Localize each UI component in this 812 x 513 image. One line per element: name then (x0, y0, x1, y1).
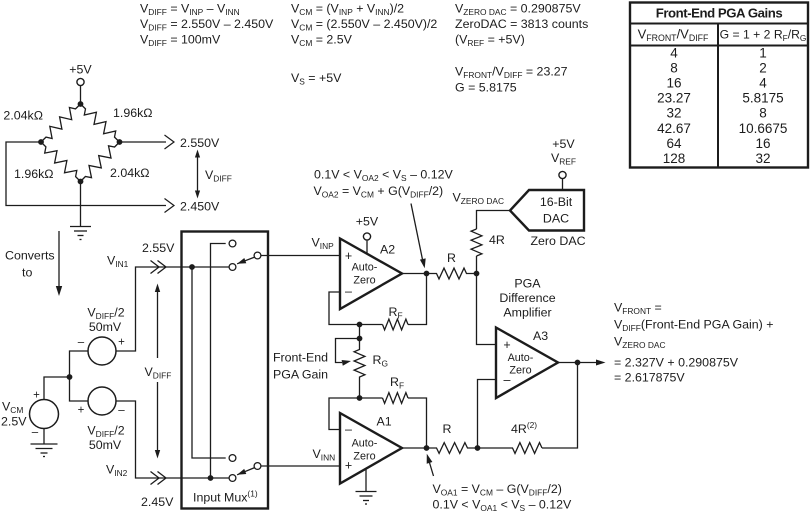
annotation: VOA2 limits with arrow (314, 168, 454, 269)
wire: A3 output (558, 362, 596, 364)
op-amp A2 (340, 239, 402, 310)
wire: VIN1 branch to lower switch throw (192, 267, 226, 458)
label RF (bottom) (390, 375, 404, 391)
label 2.55V (142, 241, 175, 255)
svg-text:–: – (118, 405, 125, 417)
DAC: 16-bit Zero DAC (510, 190, 584, 231)
svg-text:Auto-: Auto- (352, 438, 378, 450)
svg-text:32: 32 (666, 106, 681, 121)
label VIN1 (107, 254, 129, 270)
svg-text:A3: A3 (533, 329, 548, 343)
resistor 4R (471, 229, 482, 256)
svg-text:+: + (345, 249, 352, 263)
label 1.96kOhm (upper-right) (113, 106, 153, 120)
label RF (top) (389, 305, 403, 321)
svg-text:5.8175: 5.8175 (742, 91, 783, 106)
svg-text:8: 8 (670, 61, 678, 76)
svg-text:16: 16 (755, 136, 770, 151)
svg-text:–: – (345, 285, 352, 299)
svg-text:A2: A2 (380, 243, 395, 257)
arrow: VFRONT output (596, 360, 606, 366)
label VIN2 (106, 463, 128, 479)
resistor RG (programmable) (354, 339, 365, 399)
label A3 (533, 329, 548, 343)
svg-text:Front-End PGA Gains: Front-End PGA Gains (656, 6, 783, 21)
svg-text:Zero DAC: Zero DAC (530, 234, 585, 248)
wire: junction to A3 - input (478, 380, 497, 449)
svg-text:42.67: 42.67 (657, 121, 691, 136)
svg-text:128: 128 (663, 151, 686, 166)
label 4R (489, 233, 505, 247)
ground (VCM) (31, 429, 58, 457)
label RG (373, 353, 388, 369)
svg-text:PGA: PGA (514, 277, 541, 291)
switch: input mux lower (to VINN) (229, 455, 261, 482)
svg-text:PGA Gain: PGA Gain (273, 368, 328, 382)
resistor R (top) (427, 268, 477, 279)
wire: A1 output to VOA1 node (402, 447, 427, 449)
node: VOA2 junction (424, 271, 430, 277)
node: VIN1 junction inside mux (189, 264, 195, 270)
label Input Mux(1) (193, 489, 258, 505)
label VINP (312, 236, 335, 252)
svg-text:Auto-: Auto- (352, 262, 378, 274)
annotation arrow: VDIFF between input lines (155, 284, 160, 459)
svg-text:0.1V < VOA2​ < VS​ – 0.12V: 0.1V < VOA2​ < VS​ – 0.12V (314, 168, 454, 184)
resistor 1.96k (bridge lower-left) (41, 142, 81, 182)
svg-text:4: 4 (670, 46, 678, 61)
resistor RF (A2 feedback) (383, 319, 409, 330)
wire: junction to VDIFF/2 sources (70, 351, 89, 401)
annotation: VCM equations (291, 2, 437, 49)
wire: bridge left node to 2.450V output (6, 142, 174, 213)
annotation: gain example (455, 65, 568, 95)
label VINN (313, 447, 336, 463)
resistor 2.04k (bridge lower-right) (81, 142, 120, 182)
switch: input mux upper (to VINP) (229, 240, 261, 270)
label A1 (377, 415, 392, 429)
svg-text:Converts: Converts (5, 249, 55, 263)
label VDIFF/2 50mV (top) (87, 306, 124, 335)
svg-text:+5V: +5V (552, 137, 575, 151)
svg-text:1: 1 (759, 46, 767, 61)
label A2 (380, 243, 395, 257)
chevron: VIN1 entry (151, 261, 167, 274)
svg-text:2.45V: 2.45V (141, 495, 174, 509)
node: source common junction (67, 374, 73, 380)
svg-text:R: R (447, 251, 456, 265)
node: bridge right (117, 139, 123, 145)
svg-text:2.04kΩ: 2.04kΩ (110, 166, 150, 180)
annotation: Front-End PGA Gain (273, 351, 328, 382)
op-amp A3 (496, 328, 558, 399)
source VCM 2.5V (30, 390, 59, 439)
svg-text:50mV: 50mV (89, 438, 122, 452)
label 2.450V (180, 200, 220, 214)
resistor 4R(2) (A3 feedback) (478, 443, 543, 454)
svg-text:+: + (503, 338, 510, 352)
svg-text:0.1V < VOA1​ < VS​ – 0.12V: 0.1V < VOA1​ < VS​ – 0.12V (433, 498, 573, 513)
svg-text:+: + (78, 405, 85, 417)
resistor R (bottom) (427, 443, 478, 454)
svg-text:23.27: 23.27 (657, 91, 691, 106)
svg-text:Amplifier: Amplifier (503, 306, 551, 320)
annotation: VZERODAC equations (455, 2, 588, 49)
annotation: VS supply (291, 71, 342, 87)
svg-text:2.5V: 2.5V (1, 415, 27, 429)
wire: bridge right node to 2.550V output (120, 135, 175, 149)
resistor RF (A1 feedback) (383, 393, 409, 404)
wire: VZERODAC from DAC to 4R (477, 211, 511, 274)
node: VFRONT output junction (575, 360, 581, 366)
label R (top) (447, 251, 456, 265)
label R (bottom) (443, 422, 452, 436)
ground (bridge) (70, 182, 91, 240)
annotation: Converts to (with arrow) (5, 231, 62, 296)
svg-text:8: 8 (759, 106, 767, 121)
label 2.04kOhm (lower-right) (110, 166, 150, 180)
svg-text:64: 64 (666, 136, 682, 151)
svg-text:VCM​ = (2.550V – 2.450V)/2: VCM​ = (2.550V – 2.450V)/2 (291, 17, 437, 33)
annotation: PGA Difference Amplifier (499, 277, 555, 320)
ground (A1) (356, 468, 377, 504)
wire: A2 output to VOA2 node (402, 273, 427, 275)
node: DAC sum junction (474, 271, 480, 277)
svg-text:10.6675: 10.6675 (739, 121, 788, 136)
node: bridge top (78, 101, 84, 107)
label VCM 2.5V (1, 400, 27, 429)
svg-text:1.96kΩ: 1.96kΩ (113, 106, 153, 120)
wire: VCM to source junction (44, 377, 70, 400)
wire: RG top lead (359, 325, 361, 339)
svg-text:–: – (345, 423, 352, 437)
resistor 1.96k (bridge upper-right) (81, 104, 120, 142)
svg-text:ZeroDAC = 3813 counts: ZeroDAC = 3813 counts (455, 17, 588, 31)
node: bridge bottom (78, 179, 84, 185)
label VDIFF (bridge) (205, 168, 232, 184)
node: RG top junction (RF A2 tap) (357, 322, 363, 328)
wire: A2 feedback loop (329, 274, 427, 325)
node: VIN2 junction inside mux (208, 475, 214, 481)
input mux box (182, 232, 269, 509)
annotation: VFRONT result (614, 301, 773, 385)
node: bridge left (38, 139, 44, 145)
wire: A3 feedback from output to 4R(2) (542, 363, 578, 449)
svg-text:2.55V: 2.55V (142, 241, 175, 255)
svg-text:–: – (78, 337, 85, 349)
svg-text:2.550V: 2.550V (180, 136, 220, 150)
wire: bottom source to VIN2 into mux (116, 401, 181, 478)
svg-text:Auto-: Auto- (508, 352, 534, 364)
svg-text:32: 32 (755, 151, 770, 166)
node: RG adjust tap (357, 336, 363, 342)
table: Front-End PGA Gains (630, 3, 808, 168)
wire: sum node to A3 + input (477, 274, 497, 345)
chevron: VIN2 entry (151, 472, 167, 485)
wire: mux output to VINN (A1 +) (261, 465, 340, 467)
source VDIFF/2 bottom (-right) (78, 387, 126, 417)
resistor 2.04k (bridge upper-left) (41, 104, 81, 142)
svg-text:Difference: Difference (499, 291, 555, 305)
svg-text:–: – (32, 427, 39, 439)
node: RG bottom junction (RF A1 tap) (357, 395, 363, 401)
svg-text:2: 2 (759, 61, 767, 76)
svg-text:50mV: 50mV (89, 320, 122, 334)
label 1.96kOhm (lower-left) (14, 167, 54, 181)
annotation: VDIFF equations (140, 2, 274, 49)
svg-text:(VREF​ = +5V): (VREF​ = +5V) (455, 33, 525, 49)
label VDIFF/2 50mV (bottom) (87, 424, 124, 453)
label 2.550V (180, 136, 220, 150)
gain adjust arrow into RG (336, 339, 360, 366)
svg-text:Zero: Zero (353, 450, 375, 462)
annotation arrow: VDIFF between bridge outputs (195, 150, 200, 199)
wire: VIN2 branch to upper switch throw (211, 244, 226, 479)
wire: top source to VIN1 into mux (116, 267, 181, 351)
power +5V terminal (bridge) (69, 63, 92, 105)
label Zero DAC (530, 234, 585, 248)
svg-text:to: to (22, 266, 32, 280)
wire: upper switch input lead (181, 266, 229, 268)
svg-text:Zero: Zero (509, 365, 531, 377)
svg-text:+5V: +5V (356, 215, 379, 229)
svg-text:1.96kΩ: 1.96kΩ (14, 167, 54, 181)
svg-text:2.450V: 2.450V (180, 200, 220, 214)
wire: A1 feedback loop (329, 398, 427, 448)
svg-text:4: 4 (759, 76, 767, 91)
svg-text:= 2.327V + 0.290875V: = 2.327V + 0.290875V (614, 356, 739, 370)
node: VOA1 junction (424, 445, 430, 451)
label 4R(2) (511, 420, 537, 436)
wire: mux output to VINP (A2 +) (261, 255, 340, 257)
svg-text:+5V: +5V (69, 63, 92, 77)
svg-text:= 2.617875V: = 2.617875V (614, 371, 685, 385)
svg-text:+: + (33, 390, 40, 402)
svg-text:16: 16 (666, 76, 681, 91)
svg-text:G = 5.8175: G = 5.8175 (455, 81, 517, 95)
svg-text:Zero: Zero (353, 275, 375, 287)
svg-text:VS​ = +5V: VS​ = +5V (291, 71, 342, 87)
op-amp A1 (340, 413, 402, 484)
svg-text:+: + (118, 337, 125, 349)
svg-text:G = 1 + 2 RF​/RG​: G = 1 + 2 RF​/RG​ (720, 28, 807, 44)
node: A3 - input junction (475, 445, 481, 451)
svg-text:4R: 4R (489, 233, 505, 247)
label VDIFF (inputs) (145, 365, 172, 381)
source VDIFF/2 top (+right) (78, 337, 125, 366)
label VZERO DAC (net) (453, 191, 505, 207)
power +5V VREF terminal (DAC) (551, 137, 576, 190)
svg-text:DAC: DAC (543, 212, 569, 226)
wire: lower switch input lead (181, 477, 229, 479)
label 2.04kOhm (upper-left) (3, 109, 43, 123)
annotation: VOA1 limits with arrow (427, 454, 572, 513)
power +5V terminal (A2) (356, 215, 379, 255)
svg-text:R: R (443, 422, 452, 436)
svg-text:A1: A1 (377, 415, 392, 429)
svg-text:2.04kΩ: 2.04kΩ (3, 109, 43, 123)
svg-text:+: + (345, 459, 352, 473)
svg-text:Front-End: Front-End (273, 351, 328, 365)
svg-text:16-Bit: 16-Bit (540, 195, 573, 209)
label 2.45V (141, 495, 174, 509)
